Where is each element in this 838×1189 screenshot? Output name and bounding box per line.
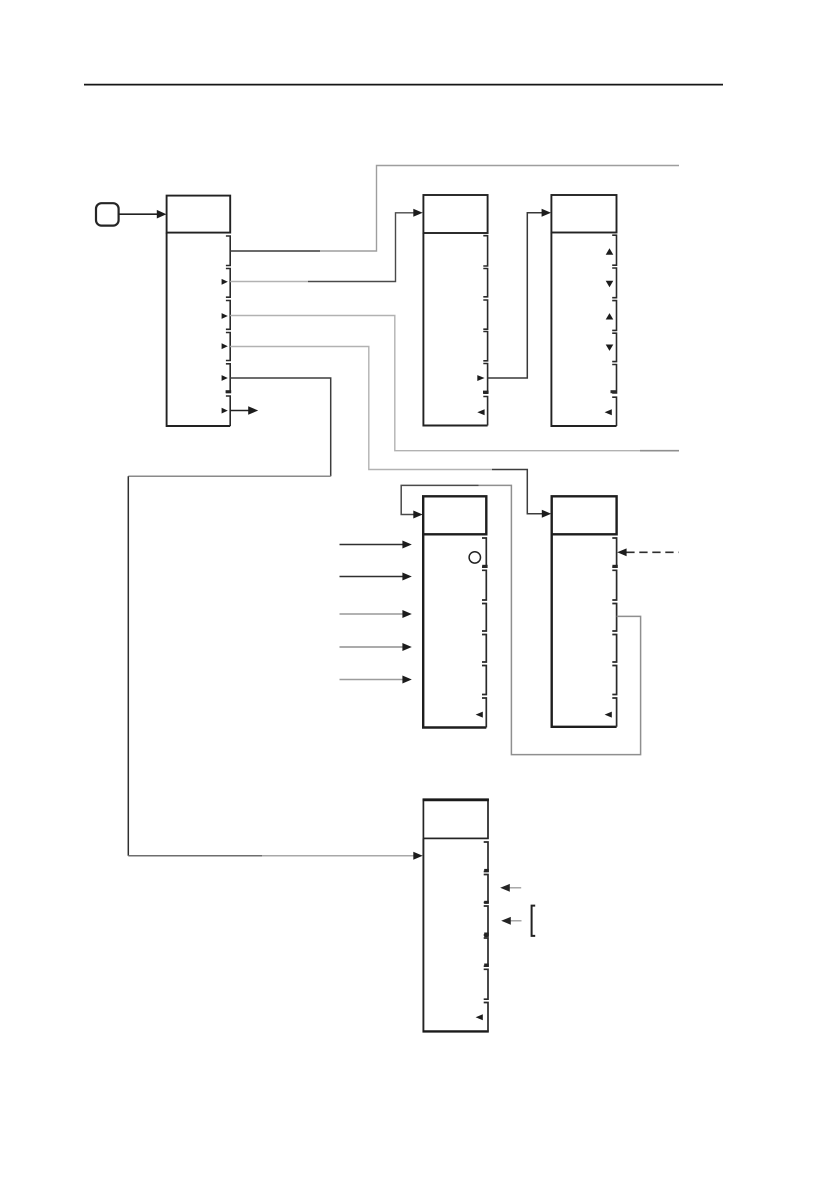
box 3 item bracket 5 thick end mark bbox=[611, 390, 617, 393]
box 6 item bracket 2 thick end mark bbox=[484, 901, 489, 904]
box 4 item bracket 3 bbox=[482, 604, 486, 632]
box 3 item bracket 6 bbox=[612, 397, 616, 426]
menu box 6 body bottom edge bbox=[423, 1030, 489, 1032]
wire: box1 item2 to box2 (dark segment) bbox=[308, 213, 415, 282]
menu box 2 body (left + bottom edge) bbox=[423, 233, 487, 426]
wire: box1 item5 to box6 (darker lead) bbox=[128, 855, 262, 857]
box 1 item bracket 6 bbox=[226, 396, 230, 426]
box 1 triangle item 6 bbox=[222, 408, 228, 414]
box 6 return triangle item 6 bbox=[476, 1014, 483, 1020]
box 4 item bracket 2 bbox=[482, 570, 486, 600]
box 3 up triangle item 1 bbox=[606, 248, 614, 254]
wire: box1 item3 to right (gray polyline) bbox=[230, 316, 640, 451]
menu box 6 header bold top edge bbox=[423, 799, 489, 802]
box 4 item bracket 1 bbox=[482, 538, 486, 567]
box 1 triangle item 4 bbox=[222, 343, 228, 349]
box 5 item bracket 5 bbox=[612, 666, 616, 695]
box 3 item bracket 3 bbox=[612, 301, 616, 331]
menu box 6 header bbox=[423, 799, 488, 838]
box 3 down triangle item 4 bbox=[606, 345, 614, 351]
box 2 item bracket 2 bbox=[483, 269, 487, 297]
wire: box1 item5 leftward segment (gray) bbox=[128, 475, 330, 477]
box 6 item bracket 6 bbox=[484, 1003, 488, 1032]
box 5 item bracket 1 thick end mark bbox=[612, 565, 617, 568]
wire: box1 item6 short arrow bbox=[230, 410, 249, 412]
menu box 2 header bbox=[423, 195, 487, 233]
box 6 item bracket 1 thick end mark bbox=[484, 869, 489, 872]
box 6 item bracket 3 bbox=[484, 906, 488, 935]
wire: box1 item5 right-down segment (dark) bbox=[230, 378, 331, 476]
box 2 item bracket 1 bbox=[483, 236, 487, 266]
box 5 item bracket 3 bbox=[612, 604, 616, 632]
box 3 item bracket 5 bbox=[612, 365, 616, 394]
wire: box1 item3 right end (darker segment) bbox=[640, 450, 679, 452]
box 4 item bracket 6 bbox=[482, 698, 486, 728]
arrowhead into box 3 header bbox=[542, 209, 551, 217]
box 1 item bracket 4 bbox=[226, 333, 230, 361]
menu box 3 body (left + bottom edge) bbox=[551, 233, 616, 427]
page top rule bbox=[84, 84, 723, 86]
menu box 5 header bbox=[552, 496, 617, 534]
box 4 circle mark bbox=[469, 552, 480, 563]
left input arrow 2 into box 4 bbox=[340, 576, 404, 578]
box 2 item bracket 5 thick end mark bbox=[483, 391, 489, 394]
box 6 item bracket 4 thick end mark bbox=[484, 964, 489, 967]
box 1 triangle item 5 bbox=[222, 375, 228, 381]
wire: box1 item5 long left vertical (dark) bbox=[127, 476, 129, 856]
menu box 5 body (left + bottom edge) bbox=[552, 534, 617, 727]
menu box 3 header bbox=[551, 195, 616, 233]
wire: box1 item4 to box5 (light polyline) bbox=[230, 347, 492, 470]
box 2 return triangle item 6 bbox=[477, 409, 484, 415]
menu box 1 body (left + bottom edge) bbox=[167, 233, 231, 426]
left arrow beside box6 item 3 bbox=[511, 920, 522, 922]
box 6 item bracket 1 bbox=[484, 842, 488, 872]
dashed wire into box 5 item 1 bbox=[626, 551, 678, 553]
wire: box1 item1 to top-right (dark segment) bbox=[230, 250, 320, 252]
wire: box1 item4 to box5 (dark segment) bbox=[492, 470, 543, 514]
box 6 item bracket 2 bbox=[484, 875, 488, 903]
annotation square bracket right of box6 item 3 bbox=[532, 906, 536, 936]
box 4 return triangle item 6 bbox=[476, 712, 483, 718]
wire: start button to menu box 1 bbox=[119, 213, 159, 215]
menu box 1 header bbox=[167, 196, 231, 233]
box 3 return triangle item 6 bbox=[605, 409, 612, 415]
box 2 item bracket 3 bbox=[483, 300, 487, 329]
menu box 4 body (left + bottom edge) bbox=[423, 534, 486, 727]
box 1 item bracket 3 bbox=[226, 301, 230, 330]
arrowhead into box 6 bbox=[413, 852, 422, 860]
left input arrow 1 into box 4 bbox=[340, 544, 404, 546]
box 3 item bracket 2 bbox=[612, 268, 616, 298]
box 5 item bracket 1 bbox=[612, 538, 616, 567]
box 2 item bracket 5 bbox=[483, 364, 487, 394]
left input arrow 5 into box 4 bbox=[340, 679, 404, 681]
wire: box2 item5 to box3 bbox=[488, 213, 543, 378]
arrowhead into box 5 header bbox=[542, 510, 551, 518]
wire: box5 loop dark segment into box4 bbox=[401, 485, 478, 514]
left arrow beside box6 item 2 bbox=[510, 887, 522, 889]
box 5 item bracket 6 bbox=[612, 698, 616, 727]
box 1 triangle item 3 bbox=[222, 313, 228, 319]
menu box 6 body left edge bbox=[422, 838, 424, 1032]
wire: box1 item1 to top-right (gray polyline) bbox=[320, 166, 679, 252]
box 1 triangle item 2 bbox=[222, 279, 228, 285]
wire: box1 item5 to box6 (light tail) bbox=[262, 855, 415, 857]
box 6 item bracket 3 thick end mark bbox=[484, 933, 489, 938]
arrowhead into box 4 header bbox=[413, 511, 422, 519]
wire: box5 item3 loop to box4 header (gray) bbox=[479, 485, 641, 754]
start button (rounded rect) bbox=[96, 203, 119, 225]
box 3 up triangle item 3 bbox=[606, 313, 614, 319]
box 6 item bracket 4 bbox=[484, 938, 488, 966]
box 4 item bracket 1 thick end mark bbox=[482, 565, 487, 568]
box 4 item bracket 4 bbox=[482, 635, 486, 663]
menu box 4 header bbox=[423, 496, 486, 534]
left input arrow 4 into box 4 bbox=[340, 646, 404, 648]
box 1 item bracket 2 bbox=[226, 269, 230, 298]
box 3 item bracket 1 bbox=[612, 235, 616, 265]
box 2 item bracket 6 bbox=[483, 397, 487, 426]
box 1 item bracket 5 thick end mark bbox=[226, 390, 232, 393]
left input arrow 3 into box 4 bbox=[340, 613, 404, 615]
dashed wire arrowhead into box 5 bbox=[617, 548, 626, 556]
box 2 triangle item 5 bbox=[477, 375, 484, 381]
box 3 item bracket 4 bbox=[612, 333, 616, 361]
arrowhead into box 2 header bbox=[413, 209, 422, 217]
arrowhead of box1 item6 short arrow bbox=[248, 406, 258, 414]
box 2 item bracket 4 bbox=[483, 332, 487, 361]
box 1 item bracket 1 bbox=[226, 236, 230, 266]
arrowhead into box 1 bbox=[157, 210, 167, 219]
box 4 item bracket 5 bbox=[482, 666, 486, 695]
box 1 item bracket 5 bbox=[226, 364, 230, 393]
box 5 item bracket 4 bbox=[612, 635, 616, 663]
box 6 item bracket 5 bbox=[484, 969, 488, 999]
box 5 return triangle item 6 bbox=[605, 712, 612, 718]
box 3 down triangle item 2 bbox=[606, 281, 614, 287]
box 5 item bracket 2 bbox=[612, 570, 616, 600]
wire: box1 item2 to box2 (light segment) bbox=[230, 281, 308, 283]
